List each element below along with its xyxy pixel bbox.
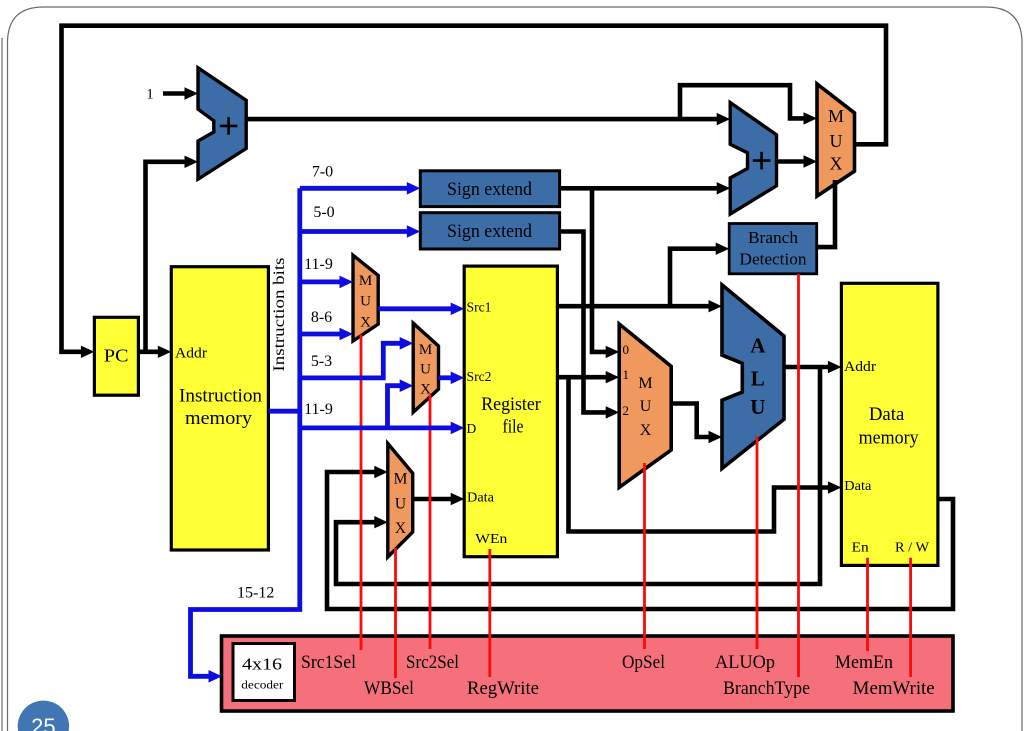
svg-text:WEn: WEn (475, 532, 507, 547)
svg-text:Instruction bits: Instruction bits (271, 258, 288, 372)
svg-text:Branch: Branch (748, 228, 799, 247)
svg-text:Sign extend: Sign extend (447, 221, 532, 242)
svg-text:Src2: Src2 (467, 369, 492, 384)
svg-text:Instruction: Instruction (179, 386, 262, 407)
svg-text:Addr: Addr (844, 359, 876, 375)
svg-text:Data: Data (467, 490, 494, 505)
svg-text:Data: Data (869, 404, 905, 425)
svg-text:PC: PC (104, 346, 129, 366)
svg-text:0: 0 (623, 342, 630, 357)
svg-text:L: L (751, 367, 765, 391)
svg-text:memory: memory (859, 427, 919, 448)
svg-text:ALUOp: ALUOp (715, 653, 775, 673)
svg-text:U: U (395, 495, 406, 512)
svg-text:X: X (420, 381, 431, 397)
svg-text:D: D (467, 421, 477, 436)
svg-text:1: 1 (146, 87, 154, 103)
svg-text:X: X (640, 422, 652, 439)
svg-text:R / W: R / W (895, 541, 930, 556)
svg-text:En: En (852, 541, 869, 556)
svg-text:4x16: 4x16 (242, 655, 282, 674)
svg-text:M: M (394, 470, 408, 487)
svg-text:file: file (503, 417, 524, 438)
svg-text:1: 1 (623, 367, 630, 382)
svg-text:U: U (640, 398, 652, 415)
svg-text:Addr: Addr (175, 346, 207, 362)
svg-text:decoder: decoder (241, 678, 283, 692)
svg-text:A: A (750, 333, 766, 357)
svg-text:MemEn: MemEn (835, 653, 893, 673)
svg-text:MemWrite: MemWrite (853, 679, 935, 699)
svg-text:Src1: Src1 (467, 300, 492, 315)
svg-text:M: M (828, 106, 844, 126)
svg-text:11-9: 11-9 (304, 401, 333, 418)
svg-text:11-9: 11-9 (304, 256, 333, 273)
svg-text:U: U (830, 131, 843, 151)
svg-text:OpSel: OpSel (622, 653, 665, 673)
svg-text:BranchType: BranchType (723, 679, 810, 699)
svg-text:X: X (395, 520, 406, 537)
svg-text:15-12: 15-12 (237, 585, 274, 602)
svg-text:Detection: Detection (740, 250, 807, 269)
svg-text:M: M (638, 375, 652, 392)
svg-text:Src2Sel: Src2Sel (406, 653, 459, 673)
svg-text:memory: memory (185, 408, 253, 429)
svg-text:U: U (750, 395, 765, 419)
svg-text:U: U (420, 361, 431, 377)
svg-text:X: X (360, 315, 371, 331)
svg-text:M: M (359, 273, 372, 289)
svg-text:5-0: 5-0 (313, 204, 334, 221)
svg-text:8-6: 8-6 (311, 309, 332, 326)
svg-text:7-0: 7-0 (312, 164, 333, 181)
svg-text:2: 2 (623, 403, 630, 418)
svg-text:U: U (360, 293, 371, 309)
svg-text:Sign extend: Sign extend (447, 179, 532, 200)
svg-text:Data: Data (844, 478, 871, 493)
svg-text:WBSel: WBSel (364, 679, 414, 699)
svg-text:Src1Sel: Src1Sel (301, 653, 356, 673)
svg-text:M: M (419, 342, 432, 358)
svg-text:25: 25 (31, 714, 55, 731)
svg-text:X: X (830, 153, 843, 173)
svg-text:5-3: 5-3 (311, 353, 332, 370)
svg-text:RegWrite: RegWrite (467, 679, 539, 699)
svg-text:Register: Register (481, 394, 541, 415)
